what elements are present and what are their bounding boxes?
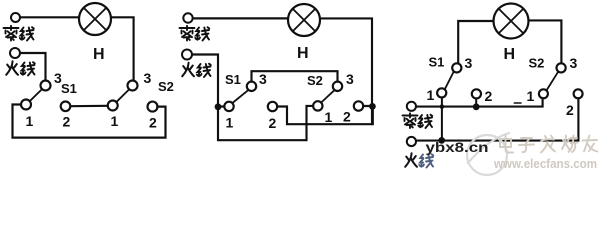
wire neutral bus to S2-1 (416, 98, 543, 107)
junction dot lamp/S2-2 (369, 103, 376, 110)
switch S1 lever (232, 90, 248, 103)
svg-text:3: 3 (465, 55, 473, 71)
stray dash mark (514, 102, 521, 104)
label 火线 (405, 153, 433, 167)
svg-text:2: 2 (269, 115, 277, 131)
terminal: live input (407, 137, 416, 146)
switch S2 terminal 3 (128, 81, 138, 91)
wire bottom rail (218, 139, 307, 141)
svg-text:www.elecfans.com: www.elecfans.com (493, 156, 597, 171)
wire lamp right side down (320, 18, 372, 124)
lamp H (79, 3, 111, 35)
svg-text:S2: S2 (529, 56, 545, 71)
wire live to S1 terminal 3 (20, 53, 46, 81)
svg-text:ybx8.cn: ybx8.cn (426, 139, 489, 155)
terminal: live input (10, 48, 20, 58)
svg-text:S1: S1 (61, 81, 77, 96)
junction dot live rail / S1-1 (438, 137, 445, 144)
svg-text:S1: S1 (429, 55, 445, 70)
svg-text:1: 1 (226, 115, 234, 131)
switch S1 terminal 3 (452, 63, 461, 72)
wire top link S1-3 to S2-3 (252, 71, 338, 82)
switch S2 terminal 2 (574, 89, 583, 98)
switch S2 terminal 3 (557, 63, 566, 72)
svg-text:3: 3 (259, 71, 267, 87)
svg-text:H: H (504, 46, 516, 63)
svg-text:S2: S2 (158, 79, 174, 94)
wire lamp left to S1-3 (458, 21, 493, 63)
svg-text:1: 1 (26, 113, 34, 129)
switch S1 terminal 2 (61, 102, 71, 112)
junction knot bus crossing (440, 104, 445, 109)
wire S1-1 down to live rail (441, 98, 443, 141)
svg-text:S1: S1 (225, 72, 241, 87)
switch S1 terminal 3 (41, 81, 51, 91)
terminal: neutral input (183, 13, 192, 22)
lamp H (494, 4, 529, 39)
wire neutral to lamp (20, 16, 79, 18)
wire S2-1 left and down to bottom rail (307, 106, 314, 140)
switch S1 terminal 3 (247, 82, 256, 91)
svg-text:1: 1 (111, 113, 119, 129)
switch S2 lever (321, 90, 334, 102)
svg-text:3: 3 (346, 71, 354, 87)
svg-text:2: 2 (149, 115, 157, 131)
switch S2 lever (116, 89, 129, 102)
terminal: neutral input (407, 102, 416, 111)
junction dot live/S1-1 (215, 103, 222, 110)
switch S1 terminal 1 (224, 102, 233, 111)
wire live down to junction (192, 55, 218, 141)
svg-text:2: 2 (485, 88, 493, 104)
junction dot S1-2/neutral bus (473, 103, 480, 110)
switch S1 terminal 1 (21, 100, 31, 110)
switch S2 terminal 2 (354, 101, 363, 110)
svg-text:3: 3 (144, 70, 152, 86)
switch S2 terminal 3 (333, 82, 342, 91)
wire lamp to S2 terminal 3 (111, 17, 134, 80)
watermark 电子发烧友 (vector, light warm gray) (500, 136, 598, 153)
svg-text:H: H (297, 45, 309, 62)
svg-text:2: 2 (343, 109, 351, 125)
svg-text:H: H (93, 46, 105, 63)
terminal: neutral input (11, 13, 20, 22)
switch S1 lever (445, 72, 454, 90)
switch S1 terminal 2 (268, 102, 277, 111)
terminal: live input (182, 50, 192, 60)
wire live rail (416, 98, 578, 140)
svg-text:2: 2 (63, 114, 71, 130)
wire S1-2 to S2-1 (70, 105, 108, 108)
switch S2 terminal 1 (539, 89, 548, 98)
label 零线 (403, 113, 433, 128)
switch S2 terminal 2 (148, 102, 158, 112)
label 零线 (180, 26, 210, 41)
svg-text:1: 1 (325, 109, 333, 125)
wire junction to S1-1 (218, 105, 225, 107)
switch S2 lever (547, 72, 559, 91)
watermark logo circle (467, 133, 509, 175)
svg-text:2: 2 (566, 102, 574, 118)
wire lamp right to S2-3 (529, 20, 562, 63)
wire S1-2 down and right to lamp node (277, 107, 373, 125)
switch S2 terminal 1 (108, 101, 118, 111)
wire S2-2 to lamp node (363, 105, 369, 107)
wire return loop bottom (13, 105, 166, 138)
svg-text:3: 3 (570, 55, 578, 71)
label 零线 (4, 26, 34, 41)
svg-text:S2: S2 (307, 73, 323, 88)
label 火线 (6, 61, 35, 75)
lamp H (288, 4, 320, 36)
switch S2 terminal 1 (313, 101, 322, 110)
switch S1 terminal 1 (437, 88, 446, 97)
wire neutral to lamp (193, 17, 288, 19)
svg-text:1: 1 (527, 88, 535, 104)
switch S1 lever (30, 89, 43, 101)
label 火线 (182, 63, 211, 77)
svg-text:1: 1 (427, 87, 435, 103)
wire S1-2 down to neutral bus (475, 99, 477, 107)
switch S1 terminal 2 (472, 89, 481, 98)
